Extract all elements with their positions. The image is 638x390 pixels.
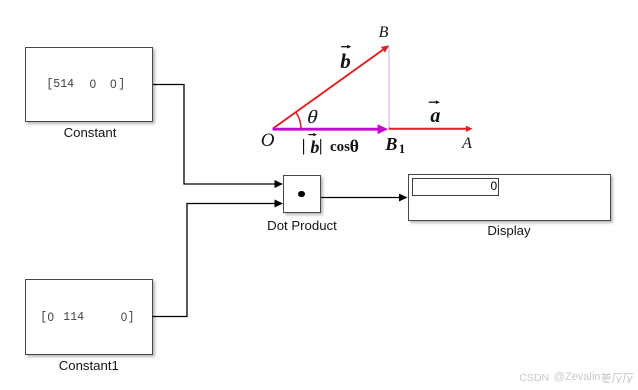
magenta arrowhead at B1 (378, 124, 389, 134)
vector |b|cos(theta) magenta O to B1 (273, 128, 380, 131)
label a (430, 106, 440, 126)
wire Constant to Dot Product input 1 (153, 85, 276, 185)
projection line B to B1 (thin lavender) (388, 47, 390, 129)
value label [0 114 0] (40, 312, 47, 324)
label Dot Product (252, 219, 352, 232)
angle arc theta (296, 112, 301, 128)
arrow over b inside |b|cos theta (308, 133, 317, 136)
label theta (305, 108, 320, 127)
block Display (408, 174, 611, 221)
block Constant1 (25, 279, 153, 355)
arrowhead input 1 (275, 180, 284, 188)
arrowhead input 2 (275, 200, 284, 208)
watermark CSDN @Zevalin (519, 373, 549, 384)
label Constant (26, 126, 154, 139)
vector a line B1 to A (389, 128, 467, 130)
label Constant1 (25, 359, 153, 372)
display value box (412, 178, 499, 196)
label B (379, 25, 389, 41)
arrowhead at A (466, 126, 473, 132)
arrowhead at B (381, 45, 390, 52)
label |b|cos theta : bar 1 (302, 138, 306, 155)
arrowhead into Display (399, 194, 408, 202)
label |b|cos theta : b (310, 138, 319, 156)
block Constant (25, 47, 154, 122)
wire Dot Product to Display (321, 197, 401, 199)
dot symbol inside Dot Product (298, 191, 305, 198)
vector b line O to B (273, 49, 384, 128)
wire Constant1 to Dot Product input 2 (152, 204, 276, 317)
label B1 : B (385, 135, 397, 153)
label Display (408, 224, 610, 237)
label b (340, 51, 351, 72)
label |b|cos theta : bar 2 (319, 138, 323, 155)
block Dot Product U1 (283, 175, 321, 213)
arrow over label b (341, 45, 351, 49)
label A (462, 136, 472, 152)
label |b|cos theta : theta (350, 138, 359, 156)
watermark CJK glyphs (approximated strokes) (601, 372, 634, 384)
arrow over label a (429, 100, 440, 104)
value label [514 0 0] (46, 79, 74, 91)
label B1 : subscript 1 (399, 143, 405, 156)
label |b|cos theta : cos (330, 140, 350, 155)
label O (261, 131, 275, 150)
